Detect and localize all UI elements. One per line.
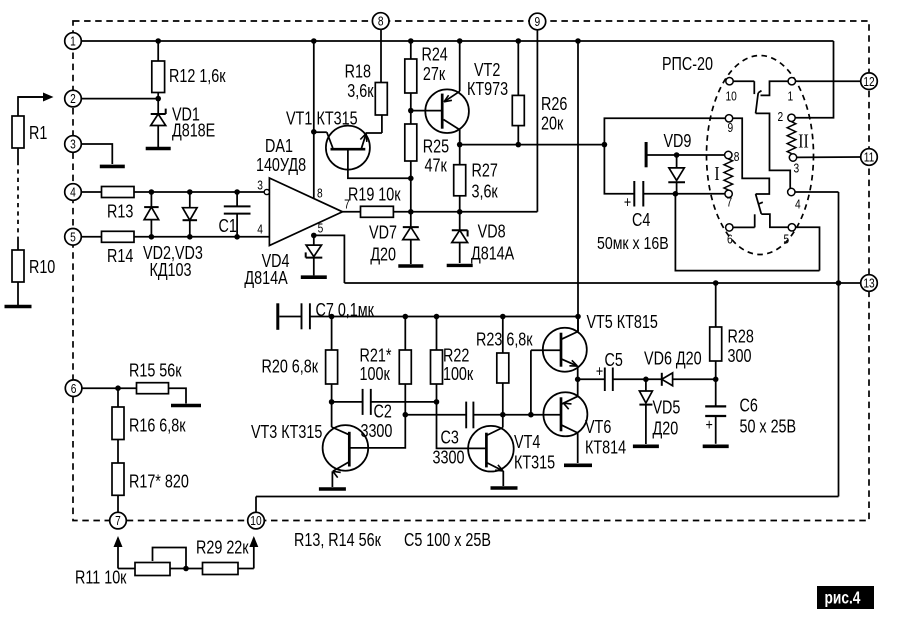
svg-text:5: 5 bbox=[784, 232, 790, 246]
svg-text:R28: R28 bbox=[728, 327, 754, 347]
svg-text:РПС-20: РПС-20 bbox=[662, 54, 713, 74]
svg-text:Д814А: Д814А bbox=[244, 268, 287, 288]
svg-text:C4: C4 bbox=[632, 210, 650, 230]
svg-text:50мк х 16В: 50мк х 16В bbox=[597, 233, 669, 253]
svg-text:3: 3 bbox=[257, 178, 263, 192]
svg-text:R15 56к: R15 56к bbox=[129, 361, 182, 381]
svg-text:9: 9 bbox=[535, 15, 541, 29]
svg-text:2: 2 bbox=[70, 92, 76, 106]
svg-text:R13: R13 bbox=[107, 202, 133, 222]
svg-text:+: + bbox=[596, 363, 603, 381]
svg-text:C6: C6 bbox=[739, 396, 757, 416]
svg-text:R18: R18 bbox=[345, 62, 371, 82]
svg-text:8: 8 bbox=[378, 14, 384, 28]
svg-text:3: 3 bbox=[793, 161, 799, 175]
svg-text:R1: R1 bbox=[29, 123, 47, 143]
svg-text:1: 1 bbox=[70, 34, 76, 48]
svg-text:рис.4: рис.4 bbox=[825, 589, 861, 608]
svg-text:3300: 3300 bbox=[360, 421, 392, 441]
svg-text:R22: R22 bbox=[443, 346, 469, 366]
svg-text:C7 0,1мк: C7 0,1мк bbox=[315, 300, 374, 320]
svg-text:VT3 КТ315: VT3 КТ315 bbox=[251, 422, 322, 442]
svg-text:С5 100 х 25В: С5 100 х 25В bbox=[404, 530, 491, 550]
svg-text:47к: 47к bbox=[425, 156, 448, 176]
svg-text:6: 6 bbox=[727, 232, 733, 246]
svg-text:1: 1 bbox=[788, 89, 794, 103]
svg-text:9: 9 bbox=[728, 121, 734, 135]
svg-text:3: 3 bbox=[70, 137, 76, 151]
svg-text:100к: 100к bbox=[360, 364, 391, 384]
svg-text:R13, R14 56к: R13, R14 56к bbox=[294, 530, 382, 550]
svg-text:27к: 27к bbox=[423, 64, 446, 84]
svg-text:3,6к: 3,6к bbox=[471, 182, 498, 202]
svg-text:11: 11 bbox=[864, 150, 875, 164]
svg-text:4: 4 bbox=[70, 185, 76, 199]
svg-text:I: I bbox=[714, 162, 719, 184]
svg-text:10: 10 bbox=[250, 514, 262, 528]
svg-text:C3: C3 bbox=[440, 428, 458, 448]
svg-text:КТ315: КТ315 bbox=[514, 453, 555, 473]
svg-text:Д20: Д20 bbox=[652, 419, 678, 439]
svg-text:R14: R14 bbox=[107, 246, 133, 266]
svg-text:C2: C2 bbox=[374, 402, 392, 422]
svg-text:DA1: DA1 bbox=[265, 136, 293, 156]
svg-text:+: + bbox=[624, 194, 631, 212]
svg-text:R20 6,8к: R20 6,8к bbox=[261, 357, 318, 377]
svg-text:8: 8 bbox=[734, 150, 740, 164]
svg-text:VD8: VD8 bbox=[478, 222, 506, 242]
svg-text:R25: R25 bbox=[423, 137, 449, 157]
svg-text:R17* 820: R17* 820 bbox=[129, 472, 189, 492]
svg-text:VD9: VD9 bbox=[663, 131, 691, 151]
svg-text:5: 5 bbox=[70, 230, 76, 244]
svg-text:Д814А: Д814А bbox=[471, 244, 514, 264]
svg-text:R27: R27 bbox=[471, 161, 497, 181]
svg-text:50 х 25В: 50 х 25В bbox=[739, 417, 796, 437]
svg-text:300: 300 bbox=[728, 346, 752, 366]
svg-text:VT6: VT6 bbox=[585, 417, 611, 437]
svg-text:R24: R24 bbox=[421, 45, 447, 65]
svg-text:VT5 КТ815: VT5 КТ815 bbox=[586, 312, 657, 332]
svg-text:10: 10 bbox=[725, 89, 737, 103]
svg-text:R21*: R21* bbox=[360, 346, 392, 366]
svg-text:R23 6,8к: R23 6,8к bbox=[476, 330, 533, 350]
svg-text:R29 22к: R29 22к bbox=[196, 538, 249, 558]
svg-text:КТ814: КТ814 bbox=[585, 438, 626, 458]
svg-text:VD6 Д20: VD6 Д20 bbox=[644, 349, 702, 369]
svg-text:7: 7 bbox=[115, 514, 121, 528]
svg-text:7: 7 bbox=[727, 195, 733, 209]
svg-text:R11 10к: R11 10к bbox=[75, 568, 127, 588]
svg-text:C5: C5 bbox=[605, 350, 623, 370]
svg-text:2: 2 bbox=[777, 110, 783, 124]
svg-text:VT1: VT1 bbox=[286, 109, 312, 129]
svg-text:VT4: VT4 bbox=[514, 432, 540, 452]
svg-text:3,6к: 3,6к bbox=[347, 81, 374, 101]
svg-text:КТ315: КТ315 bbox=[317, 109, 358, 129]
svg-text:4: 4 bbox=[257, 222, 263, 236]
svg-text:8: 8 bbox=[317, 186, 323, 200]
svg-text:R26: R26 bbox=[541, 94, 567, 114]
svg-text:5: 5 bbox=[318, 221, 324, 235]
svg-text:140УД8: 140УД8 bbox=[256, 155, 306, 175]
svg-text:6: 6 bbox=[71, 382, 77, 396]
svg-text:R16 6,8к: R16 6,8к bbox=[129, 416, 186, 436]
svg-text:3300: 3300 bbox=[433, 448, 465, 468]
svg-text:Д818Е: Д818Е bbox=[172, 121, 215, 141]
svg-text:КТ973: КТ973 bbox=[467, 79, 508, 99]
svg-text:II: II bbox=[798, 130, 808, 152]
svg-text:VD7: VD7 bbox=[369, 223, 397, 243]
svg-text:VT2: VT2 bbox=[474, 60, 500, 80]
svg-text:4: 4 bbox=[795, 197, 801, 211]
svg-text:R19 10к: R19 10к bbox=[348, 185, 401, 205]
svg-text:13: 13 bbox=[863, 276, 874, 290]
svg-text:100к: 100к bbox=[443, 364, 474, 384]
svg-text:R10: R10 bbox=[29, 257, 55, 277]
svg-text:R12 1,6к: R12 1,6к bbox=[169, 66, 226, 86]
svg-text:20к: 20к bbox=[541, 114, 564, 134]
svg-text:+: + bbox=[705, 417, 712, 435]
svg-text:КД103: КД103 bbox=[149, 260, 191, 280]
svg-text:12: 12 bbox=[863, 75, 874, 89]
svg-text:VD5: VD5 bbox=[652, 398, 680, 418]
svg-text:C1: C1 bbox=[218, 216, 236, 236]
svg-text:Д20: Д20 bbox=[370, 245, 396, 265]
